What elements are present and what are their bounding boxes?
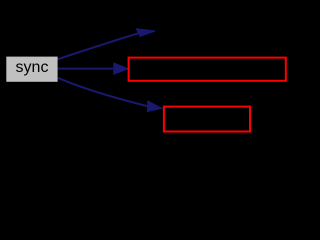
arrowhead (top edge) bbox=[136, 29, 155, 37]
wire (bottom edge shaft) bbox=[58, 78, 148, 106]
arrowhead (bottom edge) bbox=[148, 101, 162, 112]
edge: sync to top node bbox=[58, 29, 156, 60]
edge: sync to middle red node bbox=[58, 63, 129, 74]
node middle (red outlined box) bbox=[129, 58, 286, 81]
edge: sync to bottom red node bbox=[58, 78, 162, 112]
node bottom (red outlined box) bbox=[164, 107, 250, 132]
svg-text:sync: sync bbox=[16, 59, 49, 76]
wire (middle edge shaft) bbox=[58, 68, 115, 70]
wire (top edge shaft) bbox=[58, 33, 140, 59]
arrowhead (middle edge) bbox=[114, 63, 128, 74]
node sync (grey filled box with label) bbox=[6, 57, 57, 82]
